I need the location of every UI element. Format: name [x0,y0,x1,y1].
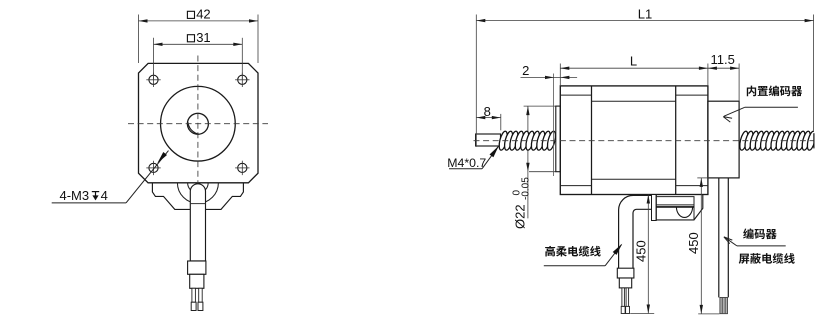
label encoder [724,228,786,245]
mounting hole 2 [235,73,249,87]
motor cable elbow inner [633,209,652,268]
label high-flex cable [544,244,623,266]
pilot circle [161,86,236,161]
cable strain relief arcs [177,183,218,204]
svg-text:42: 42 [196,7,210,22]
side wire tips [621,306,625,313]
lead screw thread right [738,130,817,150]
dimension 8 [476,104,501,147]
front wire tips [191,302,196,310]
tube seam [190,203,205,205]
connector band lines [656,204,694,206]
svg-text:2: 2 [522,63,529,78]
mounting hole 4 [235,161,249,175]
mounting hole 3 [146,161,160,175]
connector round lobe [676,207,692,218]
connector inner block [656,197,694,220]
svg-text:-0.05: -0.05 [520,177,531,200]
svg-text:L: L [630,53,637,68]
connector latch [652,195,657,221]
thread right flat end [814,124,831,156]
svg-text:4-M3: 4-M3 [60,188,90,203]
front cable end block [190,274,204,288]
dimension 450 left [630,195,654,314]
front wires [192,288,196,302]
connector housing [656,195,703,220]
label M4*0.7 [447,146,499,170]
front view centerlines [128,123,268,125]
dimension L [560,53,708,86]
shaft circle [187,113,208,134]
dimension 2 [521,63,578,79]
strain relief housing outline [152,183,190,210]
svg-text:31: 31 [196,30,210,45]
svg-text:11.5: 11.5 [711,52,735,67]
dimension L1 [476,6,813,133]
svg-text:4: 4 [101,188,108,203]
encoder cable [718,178,720,298]
front cable ferrule [188,261,206,274]
dimension 450 right [686,178,720,314]
dimension square-31 [154,30,243,80]
motor body side view [560,86,708,195]
side cable ferrule [617,268,634,278]
front cable tube [190,184,205,261]
screw M4 end stub [476,134,501,146]
side view centerline [474,140,814,142]
side wires [622,288,625,307]
dimension diameter 22 tolerance [512,106,556,229]
dimension square-42 [139,7,259,63]
label shielded cable [739,253,795,264]
stator inner lines [592,100,676,102]
mounting hole 1 [146,73,160,87]
svg-text:Ø22: Ø22 [513,204,528,229]
motor cable elbow outer [619,195,652,268]
svg-text:M4*0.7: M4*0.7 [447,156,486,170]
side cable block [619,278,631,288]
encoder housing [708,101,739,178]
thread end line [552,74,554,177]
dimension 11.5 [708,52,739,101]
pilot boss [556,106,561,172]
encoder cable stripped end [720,297,728,313]
cap inner lines [560,94,591,96]
svg-text:8: 8 [484,104,491,119]
motor front view body outline [139,63,259,182]
shaft flat arc [188,122,199,134]
svg-text:450: 450 [686,232,701,254]
leader 4-M3 depth 4 [52,151,169,204]
svg-text:450: 450 [633,240,648,262]
svg-text:L1: L1 [638,6,652,21]
rear cap boundary [675,86,677,195]
label built-in encoder [723,86,802,123]
lead screw thread left [498,130,557,150]
flange boundary [591,86,593,195]
